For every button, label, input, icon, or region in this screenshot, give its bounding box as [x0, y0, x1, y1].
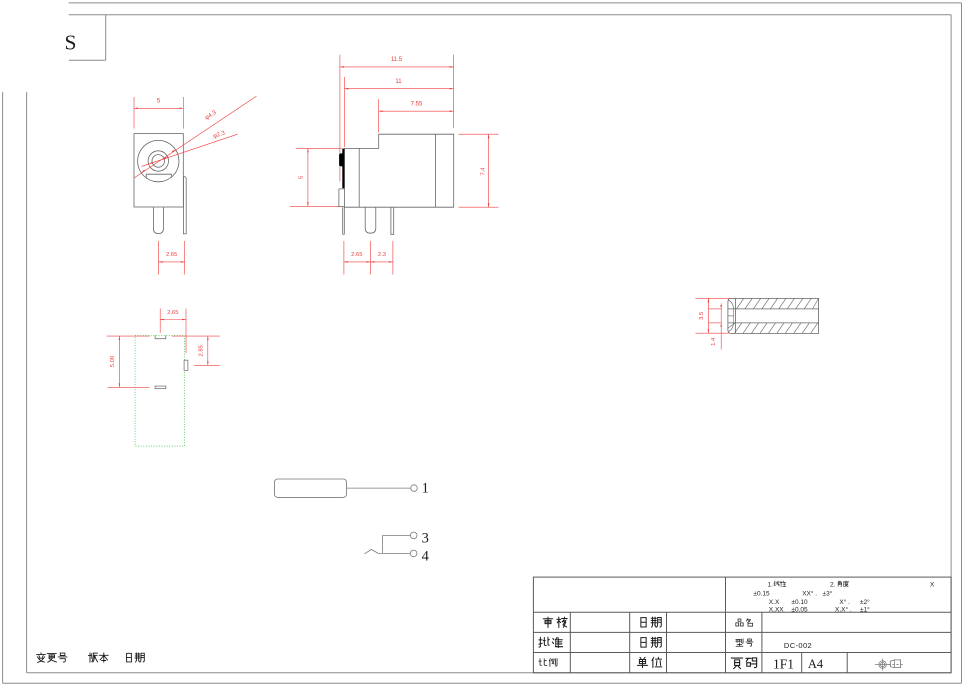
dim 7.55: dimension line [379, 110, 454, 112]
svg-text:±0.10: ±0.10 [791, 599, 808, 606]
title block label: pi-zhun (approve) [539, 637, 549, 647]
schematic: terminal 4 circle [410, 550, 417, 557]
svg-text:±0.05: ±0.05 [791, 606, 808, 613]
side view: right cap line [434, 134, 436, 207]
schematic: wire to terminal 4 [378, 552, 410, 554]
title block: column lines [569, 612, 571, 673]
bottom view dim 2.85: reference line [194, 364, 220, 366]
logo box [105, 15, 107, 61]
dim 5: dimension line with arrows [134, 107, 183, 109]
svg-text:5.00: 5.00 [110, 356, 116, 367]
bottom view dim 2.65: dimension line [160, 319, 186, 321]
bottom view: body outline (green dotted) [135, 336, 184, 447]
side view: body outline [344, 134, 453, 207]
dim 11.5: dimension line [340, 66, 454, 68]
dim 11: extension line [343, 77, 345, 147]
title block label: shen-he (examine) [543, 617, 552, 627]
pin detail dim 3.5: reference lines [695, 297, 729, 299]
title block label: bi-li (scale) [539, 659, 547, 666]
pin detail dim 1.4: reference lines [709, 308, 722, 310]
svg-text:2.: 2. [830, 581, 836, 588]
schematic: switch vertical link [382, 535, 384, 553]
svg-text:DC-002: DC-002 [784, 641, 812, 650]
side view: left thin pin [342, 207, 344, 234]
dim 2.3 (side): dimension line [370, 261, 393, 263]
bottom view: red reference line at middle slot [108, 386, 150, 388]
pin detail dim 1.4: dimension line with outside arrows [720, 303, 722, 349]
svg-text:1: 1 [422, 481, 429, 497]
revision table label: ri-qi (date) [127, 653, 132, 662]
svg-text:1.4: 1.4 [711, 337, 717, 346]
dim 7.4 (side height): extension lines [459, 133, 499, 135]
title block label: xing-hao (model) [736, 639, 743, 646]
side bottom dims: extension lines [343, 241, 345, 275]
schematic: wire to terminal 1 [347, 487, 412, 489]
svg-text:1.: 1. [768, 581, 774, 588]
bottom view: pin slot top [155, 335, 166, 338]
svg-text:3.5: 3.5 [699, 312, 705, 320]
side view: lower-left step block [339, 189, 345, 207]
pin detail: knurl band lines [728, 308, 819, 310]
svg-text:3: 3 [422, 530, 429, 546]
outer border frame [69, 2, 962, 4]
title block: row lines [533, 611, 951, 613]
svg-text:1F1: 1F1 [773, 656, 794, 671]
dim 2.65 (front): extension lines [158, 241, 160, 275]
svg-text:X: X [930, 581, 935, 588]
dim 7.55: extension line [378, 99, 380, 132]
front view: side tab [183, 177, 186, 234]
svg-text:2.65: 2.65 [351, 252, 362, 258]
projection symbol: crosshair circles [879, 661, 886, 668]
svg-text:±1°: ±1° [860, 605, 870, 613]
bottom view dim 2.65: extension lines [159, 309, 161, 333]
schematic: center pin symbol (rounded rect) [275, 479, 347, 497]
svg-text:X.X° .: X.X° . [835, 605, 852, 613]
dim 11: dimension line [344, 88, 453, 90]
title block label: pin-ming (product name) [736, 619, 743, 626]
revision table label: ban-ben (version) [88, 653, 98, 662]
title block: outer rectangle [533, 577, 951, 673]
svg-text:X.X: X.X [769, 599, 780, 606]
side view: center pin (stadium) [365, 207, 376, 233]
dim 2.65 (side): dimension line [344, 261, 371, 263]
title block label: ye-ma (page) [731, 658, 742, 669]
bottom view dim 2.85: dimension line [207, 336, 209, 365]
svg-text:5: 5 [298, 176, 304, 179]
svg-text:X° .: X° . [839, 598, 850, 606]
front view: bottom pin (stadium) [153, 207, 163, 233]
dim phi2.3 leader line [142, 134, 238, 166]
svg-text:XX° .: XX° . [802, 589, 817, 597]
svg-text:7.55: 7.55 [411, 101, 423, 107]
svg-text:2.65: 2.65 [166, 252, 177, 258]
schematic: terminal 1 circle [411, 485, 418, 492]
svg-text:7.4: 7.4 [480, 167, 486, 176]
pin detail: outline with rounded left cap [728, 298, 819, 333]
svg-text:φ4.3: φ4.3 [204, 109, 218, 121]
side view: right thin pin [391, 207, 394, 234]
front view: jack body rectangle [134, 134, 183, 207]
svg-text:S: S [65, 31, 77, 55]
schematic: wire to terminal 3 [383, 534, 411, 536]
dim 2.65 (front): dimension line [159, 261, 185, 263]
svg-text:A4: A4 [808, 657, 824, 671]
svg-text:2.65: 2.65 [167, 310, 178, 316]
dim 7.4: dimension line [488, 134, 490, 207]
front view: barrel middle circle [148, 151, 168, 171]
svg-text:5: 5 [157, 99, 161, 105]
svg-text:X.XX: X.XX [769, 606, 784, 613]
front view: center pin circle [152, 155, 165, 168]
pin detail: cap separation line [734, 298, 736, 333]
side view: rubber contact black blob [339, 153, 344, 166]
svg-text:11: 11 [395, 79, 402, 85]
schematic: terminal 3 circle [410, 532, 417, 539]
pin detail: cap facet lines [728, 315, 734, 317]
schematic: switch lever [364, 550, 378, 554]
svg-text:11.5: 11.5 [391, 57, 403, 63]
front view: bottom notch chord [146, 173, 171, 175]
dim 5 (side left height): extension lines [296, 147, 342, 149]
dim 5 (front width): extension lines [133, 97, 135, 129]
svg-text:4: 4 [422, 548, 430, 564]
pin detail dim 3.5: dimension line [707, 298, 709, 333]
dim phi4.3 leader line [134, 96, 256, 178]
dim 5 (side): dimension line [307, 148, 309, 206]
title block label: ri-qi (date) row2 [641, 638, 646, 647]
svg-text:±2°: ±2° [860, 598, 870, 606]
svg-text:±3°: ±3° [823, 589, 833, 597]
pin detail: knurl hatching bottom band [737, 298, 744, 309]
dim 11.5: extension lines [339, 55, 341, 154]
front view: barrel outer circle [138, 140, 179, 181]
title block label: dan-wei (unit) [637, 657, 647, 667]
title block label: ri-qi (date) row1 [641, 618, 646, 627]
bottom view: pin slot middle [155, 386, 166, 389]
side view: flange separation line [358, 148, 360, 207]
bottom view: red reference line top [107, 335, 150, 337]
svg-text:2.3: 2.3 [378, 252, 386, 258]
inner border frame [69, 14, 951, 16]
revision table label: bian-geng-hao (change no.) [37, 653, 46, 663]
bottom view dim 5.00: dimension line [118, 336, 120, 387]
svg-text:±0.15: ±0.15 [753, 590, 770, 597]
svg-text:2.85: 2.85 [198, 345, 204, 356]
projection symbol: frustum side view [890, 660, 900, 668]
bottom view: pin slot right [184, 360, 188, 370]
